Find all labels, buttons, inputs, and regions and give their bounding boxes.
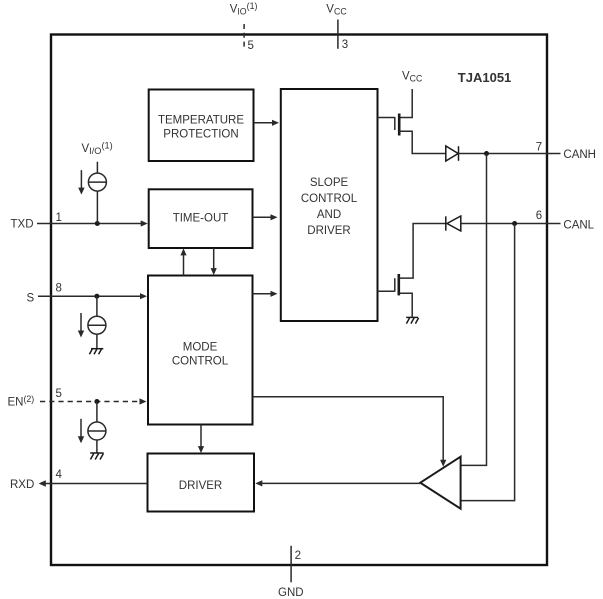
wire MODE CONTROL to receiver enable xyxy=(253,397,444,461)
block TEMPERATURE PROTECTION xyxy=(149,90,254,162)
arrow (current direction) for I2 xyxy=(80,313,82,332)
node S junction xyxy=(94,294,99,299)
svg-text:PROTECTION: PROTECTION xyxy=(163,128,238,140)
svg-text:S: S xyxy=(27,293,35,305)
svg-text:7: 7 xyxy=(536,142,542,154)
svg-text:TJA1051: TJA1051 xyxy=(458,70,511,85)
wire MODE CONTROL up to TIME-OUT xyxy=(183,255,185,276)
wire TEMPERATURE PROTECTION to SLOPE xyxy=(254,122,273,124)
node CANH junction xyxy=(484,151,489,156)
wire receiver output to DRIVER xyxy=(262,482,421,484)
svg-text:5: 5 xyxy=(56,388,62,400)
wire EN (dashed) into MODE CONTROL xyxy=(40,401,140,403)
wire Q1 drain to CANH line xyxy=(399,131,446,153)
svg-text:VCC: VCC xyxy=(402,71,423,84)
wire MODE CONTROL down to DRIVER xyxy=(200,425,202,448)
block MODE CONTROL xyxy=(148,276,253,425)
diode D2 (from CANL) xyxy=(446,216,461,231)
svg-text:DRIVER: DRIVER xyxy=(179,480,222,492)
pin 3 VCC top stub xyxy=(337,20,339,49)
wire MODE CONTROL to SLOPE xyxy=(253,293,272,295)
wire Q2 drain up to CANL line xyxy=(399,224,446,279)
transistor Q1 (high-side MOSFET) xyxy=(378,117,395,119)
svg-text:VCC: VCC xyxy=(326,4,347,17)
arrow (current direction) for I1 xyxy=(80,170,82,189)
svg-text:DRIVER: DRIVER xyxy=(307,225,350,237)
wire D1 to CANH pin xyxy=(458,153,547,155)
node EN junction xyxy=(94,399,99,404)
node TXD junction xyxy=(95,221,100,226)
ground under I3 xyxy=(90,453,103,460)
svg-text:CANL: CANL xyxy=(563,219,594,231)
pin CANL (6) stub xyxy=(547,223,561,225)
svg-text:VI/O(1): VI/O(1) xyxy=(82,141,113,156)
wire DRIVER to RXD xyxy=(45,483,148,485)
wire TXD into TIME-OUT xyxy=(37,223,142,225)
svg-text:TXD: TXD xyxy=(11,219,34,231)
svg-text:1: 1 xyxy=(56,212,62,224)
arrow (current direction) for I3 xyxy=(80,419,82,438)
block TIME-OUT xyxy=(149,189,253,248)
wire D2 to CANL pin xyxy=(461,223,547,225)
svg-text:TIME-OUT: TIME-OUT xyxy=(173,213,229,225)
svg-text:AND: AND xyxy=(317,209,341,221)
svg-text:CONTROL: CONTROL xyxy=(301,193,358,205)
op-amp RX (receiver comparator) xyxy=(420,457,460,509)
wire CANH junction down to receiver input xyxy=(461,154,487,466)
svg-text:4: 4 xyxy=(56,469,63,481)
svg-text:VIO(1): VIO(1) xyxy=(230,1,258,17)
svg-text:CONTROL: CONTROL xyxy=(172,356,229,368)
svg-text:EN(2): EN(2) xyxy=(8,394,35,408)
svg-text:CANH: CANH xyxy=(563,149,596,161)
transistor Q2 (low-side MOSFET) xyxy=(378,290,395,292)
svg-text:RXD: RXD xyxy=(10,479,34,491)
svg-text:TEMPERATURE: TEMPERATURE xyxy=(158,114,244,126)
diode D1 (to CANH) xyxy=(446,146,459,161)
wire CANL junction down to receiver input xyxy=(461,224,515,501)
svg-text:GND: GND xyxy=(278,587,304,599)
wire TIME-OUT to SLOPE xyxy=(253,216,272,218)
pin 5 VIO top stub (dashed) xyxy=(243,24,245,48)
current source I1 (VI/O pull-up on TXD) xyxy=(88,162,106,224)
pin CANH (7) stub xyxy=(547,153,561,155)
wire Q2 source to ground xyxy=(399,293,412,317)
wire VCC to Q1 source xyxy=(399,89,412,118)
node CANL junction xyxy=(512,221,517,226)
current source I2 (pull-down on S) xyxy=(88,296,106,348)
pin 2 GND bottom stub xyxy=(290,546,292,583)
svg-text:8: 8 xyxy=(56,283,62,295)
svg-text:6: 6 xyxy=(536,210,542,222)
svg-text:5: 5 xyxy=(248,40,254,52)
current source I3 (pull-down on EN) xyxy=(88,402,106,453)
svg-text:2: 2 xyxy=(295,550,301,562)
block SLOPE CONTROL AND DRIVER xyxy=(281,89,378,321)
wire S into MODE CONTROL xyxy=(38,295,141,297)
svg-text:MODE: MODE xyxy=(183,342,218,354)
wire TIME-OUT down to MODE CONTROL xyxy=(213,248,215,269)
ground under Q2 xyxy=(406,317,418,323)
ground under I2 xyxy=(89,349,103,355)
svg-text:3: 3 xyxy=(342,39,348,51)
chip outline TJA1051 xyxy=(51,35,547,566)
svg-text:SLOPE: SLOPE xyxy=(310,177,349,189)
block DRIVER xyxy=(148,454,255,512)
